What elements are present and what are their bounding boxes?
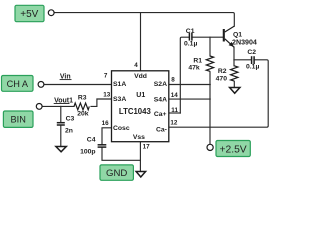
wire C2 right plate to Ca- pin12 [169, 60, 268, 127]
resistor R1 47k [206, 56, 213, 71]
svg-text:GND: GND [106, 168, 127, 179]
wire Vdd pin4 drop [140, 13, 142, 71]
svg-text:C1: C1 [186, 28, 195, 35]
capacitor C4 [98, 145, 107, 147]
wire C3 lower stem to ground [60, 125, 62, 146]
svg-text:LTC1043: LTC1043 [119, 107, 152, 116]
wire top +5V rail to Q1 collector [54, 13, 234, 27]
svg-text:4: 4 [134, 62, 138, 69]
IC U1 LTC1043 body [112, 71, 169, 142]
svg-text:Ca+: Ca+ [154, 111, 167, 118]
wire node to C2 left plate [234, 59, 251, 61]
svg-text:+2.5V: +2.5V [219, 145, 246, 156]
port box BIN [3, 111, 33, 127]
svg-text:S3A: S3A [113, 96, 126, 103]
svg-text:S1A: S1A [113, 81, 126, 88]
wire Q1 emitter down to node [233, 47, 235, 60]
svg-text:Vss: Vss [133, 134, 145, 141]
svg-text:0.1µ: 0.1µ [184, 41, 197, 48]
svg-text:R1: R1 [193, 57, 202, 64]
svg-text:C2: C2 [247, 49, 256, 56]
svg-text:S4A: S4A [154, 96, 167, 103]
port box +2.5V [216, 141, 250, 157]
resistor R2 470 [231, 66, 238, 81]
wire R2 bottom to ground arrow [233, 81, 235, 87]
svg-text:Vdd: Vdd [134, 73, 147, 80]
wire node to R2 top [233, 60, 235, 66]
svg-text:11: 11 [171, 107, 178, 114]
net label Vin underline [60, 79, 72, 81]
wire base rail from vertical branch to C1 [180, 37, 189, 113]
svg-text:2n: 2n [65, 127, 73, 134]
net label Vout1 underline [54, 103, 70, 105]
svg-text:Ca-: Ca- [156, 126, 167, 133]
ground arrow under R2 [230, 88, 240, 94]
wire R1 bottom stem down to +2.5V terminal [209, 72, 211, 145]
capacitor C3 [57, 123, 65, 125]
wire pin11 stub [169, 112, 181, 114]
port box CH A [2, 76, 34, 92]
svg-text:17: 17 [143, 143, 151, 150]
svg-text:C4: C4 [87, 137, 96, 144]
svg-text:470: 470 [216, 76, 228, 83]
wire Vout1 to R3 [42, 105, 74, 107]
svg-text:+5V: +5V [20, 9, 38, 20]
terminal CH A circle [38, 82, 44, 88]
wire C4 bottom to gnd rail [102, 147, 140, 160]
capacitor C2 [252, 56, 255, 64]
svg-text:S2A: S2A [154, 81, 167, 88]
wire Vin to pin7 [44, 84, 112, 86]
wire R1 top stem [209, 37, 211, 56]
wire pin16 Cosc to C4 [102, 128, 112, 145]
wire C1 right to Q1 base [192, 36, 223, 38]
terminal +5V circle [48, 10, 54, 16]
svg-text:2N3904: 2N3904 [232, 38, 257, 46]
svg-text:R2: R2 [218, 68, 227, 75]
svg-text:Cosc: Cosc [113, 125, 130, 132]
svg-text:47k: 47k [188, 65, 200, 72]
ground under C3 [56, 147, 66, 152]
svg-text:100p: 100p [80, 148, 96, 155]
svg-text:CH A: CH A [7, 79, 29, 89]
resistor R3 20k [74, 103, 89, 110]
svg-text:20k: 20k [77, 110, 89, 117]
terminal Vout1 circle [36, 104, 42, 110]
wire pin8 stub [169, 84, 210, 86]
Q1 emitter arrowhead [229, 42, 234, 47]
svg-text:R3: R3 [78, 94, 87, 101]
svg-text:0.1µ: 0.1µ [246, 64, 259, 71]
svg-text:8: 8 [171, 77, 175, 84]
port box +5V [15, 5, 44, 21]
svg-text:13: 13 [103, 92, 111, 99]
svg-text:C3: C3 [66, 115, 75, 122]
svg-text:14: 14 [171, 92, 179, 99]
capacitor C1 [189, 33, 192, 41]
terminal +2.5V circle [207, 144, 213, 150]
svg-text:12: 12 [170, 120, 178, 127]
wire R3 lead and jog up to pin13 [91, 99, 112, 106]
svg-text:7: 7 [104, 73, 108, 80]
wire pin14 stub [169, 98, 210, 100]
port box GND [100, 165, 133, 180]
svg-text:BIN: BIN [11, 115, 26, 125]
wire pin17 Vss down to ground [139, 142, 141, 172]
transistor Q1 2N3904 [224, 26, 235, 47]
svg-text:16: 16 [102, 120, 110, 127]
wire C3 upper stem [60, 106, 62, 122]
svg-text:U1: U1 [136, 92, 145, 99]
ground under pin17 [136, 172, 146, 178]
